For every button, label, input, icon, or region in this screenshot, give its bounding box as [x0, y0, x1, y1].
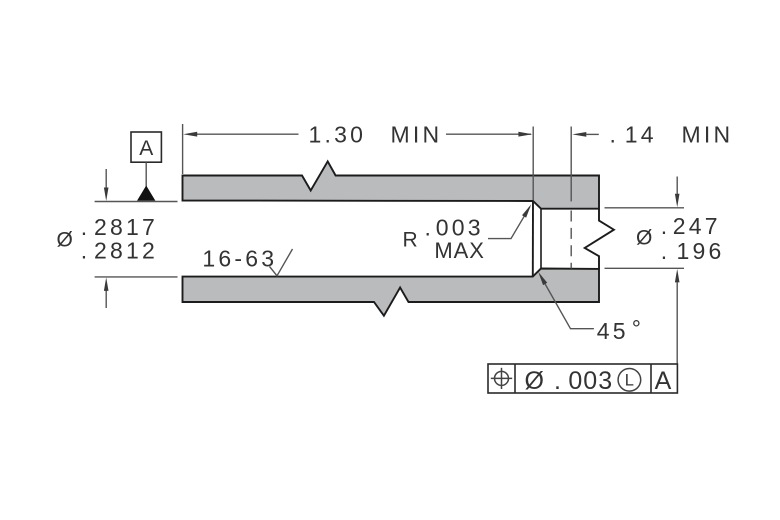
svg-text:MIN: MIN [391, 121, 443, 147]
feature control frame divider 2 [650, 364, 652, 393]
svg-text:003: 003 [568, 367, 613, 395]
arrowhead 1.30 right [518, 132, 532, 137]
counterbore step face line [532, 201, 534, 277]
svg-text:A: A [139, 137, 153, 160]
left down arrow line [105, 169, 107, 189]
svg-text:14: 14 [625, 121, 657, 147]
svg-text:.: . [425, 215, 435, 241]
arrowhead 1.30 left [183, 132, 197, 137]
svg-text:Ø: Ø [57, 229, 73, 252]
svg-text:.: . [661, 213, 671, 239]
svg-text:.: . [661, 238, 671, 264]
feature control frame divider 1 [514, 364, 516, 393]
chamfer-to-bore transition line [540, 209, 542, 269]
left down arrowhead [104, 188, 109, 202]
svg-text:L: L [625, 372, 634, 390]
svg-text:247: 247 [673, 213, 721, 239]
leader line 45 degrees [540, 276, 594, 329]
leader arrowhead R.003 [522, 203, 533, 217]
extension line for 1.30 left [182, 124, 184, 174]
right up arrowhead [675, 269, 680, 283]
part section: bottom wall (with break zigzag and chamfer step) [183, 269, 600, 316]
feature control frame outer box [488, 364, 677, 393]
hidden depth line dashed [570, 211, 572, 269]
leader line R.003 [488, 207, 530, 239]
svg-text:MAX: MAX [434, 238, 484, 263]
right down arrow line [676, 177, 678, 195]
dimension tail .14 [586, 133, 599, 135]
svg-text:.: . [81, 214, 91, 240]
arrowhead .14 [572, 132, 586, 137]
svg-text:Ø: Ø [525, 367, 544, 395]
datum connection line to control frame [676, 282, 678, 364]
dimension line 1.30 right segment [446, 133, 531, 135]
svg-text:.: . [81, 238, 91, 264]
svg-text:.: . [554, 367, 561, 395]
right down arrowhead [675, 194, 680, 208]
svg-text:1.30: 1.30 [309, 121, 367, 147]
part section: top wall (with break zigzag and chamfer step) [183, 161, 600, 208]
datum leader line [145, 162, 147, 186]
svg-text:003: 003 [436, 215, 484, 241]
left up arrowhead [104, 277, 109, 291]
extension line upper left (bore top) [95, 201, 178, 203]
extension line right upper (small bore top) [605, 207, 685, 209]
extension line for 1.30 right / chamfer edge [532, 127, 534, 201]
extension line right lower (small bore bottom) [605, 267, 685, 269]
svg-text:45: 45 [597, 318, 629, 344]
svg-text:Ø: Ø [636, 227, 652, 250]
svg-text:16-63: 16-63 [202, 245, 277, 271]
extension line lower left (bore bottom) [95, 276, 178, 278]
svg-text:.: . [610, 121, 620, 147]
svg-text:2812: 2812 [94, 238, 158, 264]
svg-text:A: A [655, 367, 672, 395]
dimension line 1.30 left segment [196, 133, 299, 135]
svg-text:2817: 2817 [94, 214, 158, 240]
svg-text:MIN: MIN [682, 121, 734, 147]
svg-text:196: 196 [677, 238, 725, 264]
svg-text:R: R [403, 228, 418, 251]
position tolerance symbol [491, 368, 512, 389]
datum filled triangle [137, 186, 155, 201]
extension line .14 solid upper part [570, 127, 572, 202]
leader arrowhead 45 degrees [536, 271, 547, 286]
LMC modifier circle [618, 369, 641, 392]
right end break line zigzag [585, 209, 614, 269]
datum feature symbol square A [131, 132, 161, 162]
svg-text:°: ° [632, 316, 644, 342]
left up arrow line [105, 290, 107, 308]
surface finish checkmark [270, 249, 293, 276]
